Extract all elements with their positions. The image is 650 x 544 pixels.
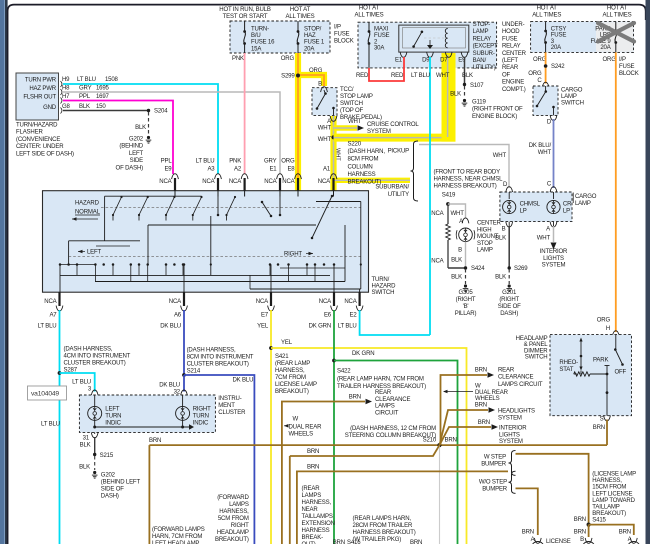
svg-text:BLK: BLK <box>79 104 90 110</box>
svg-text:WHEELS: WHEELS <box>289 431 314 437</box>
svg-text:FUSE: FUSE <box>334 32 350 38</box>
svg-text:STOP/: STOP/ <box>304 27 322 33</box>
svg-text:RIGHT: RIGHT <box>231 523 249 529</box>
svg-text:HEADLAMP: HEADLAMP <box>217 530 249 536</box>
svg-text:SYSTEM: SYSTEM <box>499 439 523 445</box>
svg-text:CLUSTER BREAKOUT): CLUSTER BREAKOUT) <box>187 362 249 368</box>
svg-text:LT BLU: LT BLU <box>411 73 430 79</box>
svg-text:SWITCH: SWITCH <box>561 101 584 107</box>
svg-text:W: W <box>293 417 299 423</box>
svg-text:5CM FROM: 5CM FROM <box>218 516 249 522</box>
svg-text:RELAY: RELAY <box>502 44 521 50</box>
svg-text:CHMSL: CHMSL <box>520 202 541 208</box>
svg-text:E6: E6 <box>324 313 332 319</box>
svg-text:PARK: PARK <box>593 358 608 364</box>
svg-text:S: S <box>600 417 604 423</box>
svg-text:(LICENSE LAMP: (LICENSE LAMP <box>592 472 636 478</box>
svg-text:BRN: BRN <box>445 438 457 444</box>
svg-text:(CONVENIENCE: (CONVENIENCE <box>16 137 60 143</box>
svg-text:DIMMER: DIMMER <box>524 348 548 354</box>
svg-text:NCA: NCA <box>202 179 215 185</box>
svg-text:8CM INTO INSTRUMENT: 8CM INTO INSTRUMENT <box>187 355 254 361</box>
svg-text:FUSE 1: FUSE 1 <box>304 40 325 46</box>
svg-text:DK BLU/: DK BLU/ <box>529 143 552 149</box>
svg-text:TURN: TURN <box>105 414 121 420</box>
svg-text:STAT: STAT <box>559 367 573 373</box>
svg-text:(REAR LAMP: (REAR LAMP <box>275 361 310 367</box>
svg-text:OF DASH): OF DASH) <box>116 165 144 171</box>
svg-text:CENTER: CENTER <box>502 51 527 57</box>
svg-text:PICKUP: PICKUP <box>388 149 410 155</box>
svg-text:S204: S204 <box>154 109 168 115</box>
svg-text:W STEP: W STEP <box>484 455 506 461</box>
svg-text:HARNESS BREAKOUT): HARNESS BREAKOUT) <box>353 530 416 536</box>
svg-text:WHT: WHT <box>318 126 332 132</box>
svg-text:HOT AT: HOT AT <box>359 6 380 12</box>
svg-text:TAILLAMP: TAILLAMP <box>592 505 619 511</box>
svg-text:(RIGHT: (RIGHT <box>456 297 476 303</box>
svg-text:E9: E9 <box>164 167 172 173</box>
svg-text:ORG: ORG <box>281 159 295 165</box>
svg-text:MENT: MENT <box>218 403 235 409</box>
svg-text:SIDE OF: SIDE OF <box>101 487 124 493</box>
svg-text:LT BLU: LT BLU <box>72 380 91 386</box>
svg-text:HARNESS: HARNESS <box>302 528 330 534</box>
svg-text:ENGINE: ENGINE <box>502 80 524 86</box>
svg-text:I/P: I/P <box>334 25 341 31</box>
svg-text:ORG: ORG <box>597 318 611 324</box>
svg-text:WHT: WHT <box>538 150 552 156</box>
svg-text:DASH): DASH) <box>101 494 119 500</box>
svg-text:20A: 20A <box>551 45 562 51</box>
svg-text:31: 31 <box>83 436 90 442</box>
svg-text:BRN: BRN <box>333 540 345 544</box>
svg-text:30A: 30A <box>374 46 385 52</box>
svg-text:CLEARANCE: CLEARANCE <box>498 375 533 381</box>
svg-text:DK GRN: DK GRN <box>309 324 331 330</box>
svg-text:(REAR: (REAR <box>302 486 321 492</box>
svg-text:1695: 1695 <box>96 86 110 92</box>
svg-text:BRN: BRN <box>410 540 422 544</box>
svg-text:15A: 15A <box>251 46 262 52</box>
svg-text:(FORWARD LAMPS: (FORWARD LAMPS <box>152 527 205 533</box>
svg-text:S107: S107 <box>470 83 484 89</box>
svg-text:ALL TIMES: ALL TIMES <box>355 13 384 19</box>
svg-text:LT BLU: LT BLU <box>338 324 357 330</box>
svg-text:DUAL REAR: DUAL REAR <box>289 424 323 430</box>
svg-text:B: B <box>580 537 584 543</box>
svg-text:MOUNT: MOUNT <box>477 234 499 240</box>
svg-text:ALL TIMES: ALL TIMES <box>532 13 561 19</box>
svg-text:LEFT SIDE OF DASH): LEFT SIDE OF DASH) <box>16 151 74 157</box>
svg-text:I/P: I/P <box>619 57 626 63</box>
svg-text:NCA: NCA <box>282 179 295 185</box>
svg-text:BLOCK: BLOCK <box>619 71 639 77</box>
svg-text:FUSE: FUSE <box>374 33 390 39</box>
svg-text:CARGO: CARGO <box>561 88 583 94</box>
svg-text:GRY: GRY <box>264 159 277 165</box>
svg-text:STEERING COLUMN BREAKOUT): STEERING COLUMN BREAKOUT) <box>345 433 436 439</box>
svg-text:HAZ: HAZ <box>304 33 316 39</box>
svg-text:COMPT.): COMPT.) <box>502 87 526 93</box>
svg-text:S215: S215 <box>100 453 114 459</box>
svg-text:H8: H8 <box>62 86 70 92</box>
svg-text:(RIGHT FRONT OF: (RIGHT FRONT OF <box>472 107 523 113</box>
svg-text:CRUISE CONTROL: CRUISE CONTROL <box>367 122 419 128</box>
svg-text:NCA: NCA <box>318 179 331 185</box>
svg-text:LIGHTS: LIGHTS <box>499 432 520 438</box>
svg-text:CENTER: UNDER: CENTER: UNDER <box>16 144 64 150</box>
svg-text:LAMP: LAMP <box>561 94 577 100</box>
svg-text:WHT: WHT <box>436 73 450 79</box>
svg-text:va104049: va104049 <box>31 391 59 398</box>
svg-text:(DASH HARNESS,: (DASH HARNESS, <box>187 348 236 354</box>
svg-text:E8: E8 <box>287 167 295 173</box>
svg-text:BREAKOUT): BREAKOUT) <box>215 537 249 543</box>
svg-text:HARN, 7CM FROM: HARN, 7CM FROM <box>152 534 202 540</box>
svg-text:G201: G201 <box>502 290 517 296</box>
svg-text:ORG: ORG <box>603 57 617 63</box>
svg-text:BAN/: BAN/ <box>473 58 487 64</box>
svg-text:BRN: BRN <box>475 403 487 409</box>
svg-text:CR: CR <box>563 202 572 208</box>
svg-text:B: B <box>458 248 462 254</box>
svg-text:E2: E2 <box>350 313 358 319</box>
svg-text:& PANEL: & PANEL <box>524 342 549 348</box>
svg-text:CTSY: CTSY <box>551 27 567 33</box>
svg-text:(REAR LAMPS HARN,: (REAR LAMPS HARN, <box>353 516 412 522</box>
svg-text:LICENSE: LICENSE <box>546 539 571 544</box>
svg-text:RELAY: RELAY <box>473 36 492 42</box>
svg-text:BLK: BLK <box>80 443 91 449</box>
svg-text:LT BLU: LT BLU <box>77 77 96 83</box>
svg-text:PPL: PPL <box>79 94 91 100</box>
svg-text:NCA: NCA <box>431 259 444 265</box>
svg-text:FUSE 16: FUSE 16 <box>251 40 275 46</box>
svg-text:S242: S242 <box>551 64 565 70</box>
svg-text:LAMP TOWARD: LAMP TOWARD <box>592 498 635 504</box>
svg-text:LT BLU: LT BLU <box>38 324 57 330</box>
svg-text:BRN: BRN <box>522 530 534 536</box>
svg-text:S299: S299 <box>281 74 295 80</box>
svg-text:1697: 1697 <box>96 94 110 100</box>
svg-text:(RIGHT: (RIGHT <box>499 297 519 303</box>
svg-text:NCA: NCA <box>431 211 444 217</box>
svg-text:G8: G8 <box>62 104 71 110</box>
svg-text:(FORWARD: (FORWARD <box>217 495 249 501</box>
svg-text:ENGINE BLOCK): ENGINE BLOCK) <box>472 114 517 120</box>
svg-text:LEFT: LEFT <box>129 151 144 157</box>
svg-text:(BEHIND LEFT: (BEHIND LEFT <box>101 480 141 486</box>
svg-text:D9: D9 <box>422 58 430 64</box>
svg-text:PNK: PNK <box>232 56 244 62</box>
svg-text:CLUSTER BREAKOUT): CLUSTER BREAKOUT) <box>64 361 126 367</box>
svg-text:H: H <box>606 326 610 332</box>
svg-text:S419: S419 <box>442 193 456 199</box>
svg-text:HARNESS,: HARNESS, <box>275 368 305 374</box>
svg-text:HAZ PWR: HAZ PWR <box>29 86 56 92</box>
svg-text:HOT AT: HOT AT <box>607 6 628 12</box>
svg-text:S287: S287 <box>64 368 78 374</box>
svg-text:(DASH HARNESS,: (DASH HARNESS, <box>64 347 113 353</box>
svg-text:CLUSTER: CLUSTER <box>218 410 246 416</box>
svg-text:INTERIOR: INTERIOR <box>499 426 527 432</box>
svg-text:D7: D7 <box>440 58 448 64</box>
svg-text:DK BLU: DK BLU <box>159 383 180 389</box>
svg-text:STOP: STOP <box>477 241 493 247</box>
svg-text:STOP LAMP: STOP LAMP <box>340 94 373 100</box>
svg-text:BLK: BLK <box>495 275 506 281</box>
svg-text:WHT: WHT <box>348 119 362 125</box>
svg-text:S416: S416 <box>347 540 361 544</box>
svg-text:LP: LP <box>520 208 527 214</box>
svg-text:LAMP: LAMP <box>473 29 489 35</box>
svg-text:HOOD: HOOD <box>502 29 520 35</box>
svg-text:NEAR: NEAR <box>302 507 319 513</box>
svg-text:BREAKOUT): BREAKOUT) <box>275 389 309 395</box>
svg-text:SWITCH: SWITCH <box>372 290 395 296</box>
svg-text:A6: A6 <box>174 313 182 319</box>
svg-text:NCA: NCA <box>229 179 242 185</box>
svg-text:28CM FROM TRAILER: 28CM FROM TRAILER <box>353 523 413 529</box>
svg-text:20A: 20A <box>304 46 315 52</box>
svg-text:A7: A7 <box>49 313 57 319</box>
svg-text:SIDE OF: SIDE OF <box>498 304 521 310</box>
svg-text:BRN: BRN <box>593 425 605 431</box>
svg-text:UTILITY: UTILITY <box>388 192 409 198</box>
svg-text:BRN: BRN <box>574 530 586 536</box>
svg-text:REAR: REAR <box>502 65 519 71</box>
svg-text:HEADLIGHTS: HEADLIGHTS <box>498 409 535 415</box>
svg-text:YEL: YEL <box>281 340 293 346</box>
svg-text:BUMPER: BUMPER <box>481 462 507 468</box>
svg-text:A3: A3 <box>207 167 215 173</box>
svg-text:UNDER-: UNDER- <box>502 22 525 28</box>
svg-text:RED: RED <box>391 73 404 79</box>
svg-text:150: 150 <box>96 104 106 110</box>
svg-text:ORG: ORG <box>528 71 542 77</box>
svg-text:BRN: BRN <box>307 465 319 471</box>
svg-text:B/U: B/U <box>251 33 261 39</box>
svg-text:BRN: BRN <box>349 395 361 401</box>
svg-text:BUMPER: BUMPER <box>482 487 508 493</box>
svg-text:E1: E1 <box>395 58 403 64</box>
svg-text:HARNESS,: HARNESS, <box>219 509 249 515</box>
svg-text:INDIC: INDIC <box>105 421 121 427</box>
svg-text:FLSHR OUT: FLSHR OUT <box>23 95 56 101</box>
svg-text:HARNESS BREAKOUT): HARNESS BREAKOUT) <box>434 184 497 190</box>
svg-text:REAR: REAR <box>375 390 392 396</box>
svg-text:H9: H9 <box>62 77 70 83</box>
svg-text:G202: G202 <box>129 137 144 143</box>
svg-text:ORG: ORG <box>281 56 295 62</box>
svg-text:REAR: REAR <box>498 368 515 374</box>
svg-text:NORMAL: NORMAL <box>75 210 101 216</box>
svg-text:RIGHT: RIGHT <box>284 252 302 258</box>
svg-text:PPL: PPL <box>161 159 173 165</box>
svg-text:B: B <box>502 227 506 233</box>
svg-text:LAMPS: LAMPS <box>302 493 322 499</box>
svg-text:DK BLU: DK BLU <box>160 324 181 330</box>
svg-text:INSTRU-: INSTRU- <box>218 396 241 402</box>
svg-text:LEFT: LEFT <box>87 250 102 256</box>
svg-text:RHEO-: RHEO- <box>559 360 578 366</box>
svg-text:UTILITY): UTILITY) <box>473 65 496 71</box>
svg-text:BLK: BLK <box>135 125 146 131</box>
svg-text:S424: S424 <box>471 266 485 272</box>
svg-text:DK BLU: DK BLU <box>233 378 254 384</box>
svg-text:LAMPS: LAMPS <box>229 502 249 508</box>
svg-text:G119: G119 <box>472 100 486 106</box>
svg-text:W/O STEP: W/O STEP <box>479 480 507 486</box>
svg-text:SYSTEM: SYSTEM <box>498 416 522 422</box>
svg-text:ALL TIMES: ALL TIMES <box>603 13 632 19</box>
svg-text:BLK: BLK <box>451 258 462 264</box>
svg-text:HARNESS, NEAR CHMSL: HARNESS, NEAR CHMSL <box>434 177 504 183</box>
svg-text:GND: GND <box>43 105 57 111</box>
svg-text:BREAK-: BREAK- <box>302 535 324 541</box>
svg-text:NCA: NCA <box>264 179 277 185</box>
svg-text:S269: S269 <box>514 266 528 272</box>
svg-text:7CM FROM: 7CM FROM <box>275 375 306 381</box>
svg-text:LT BLU: LT BLU <box>41 422 60 428</box>
svg-text:S220: S220 <box>348 142 362 148</box>
svg-text:WHT: WHT <box>451 211 465 217</box>
svg-text:RED: RED <box>356 73 369 79</box>
svg-text:H7: H7 <box>62 94 70 100</box>
svg-text:BLK: BLK <box>79 465 90 471</box>
svg-text:HOT AT: HOT AT <box>537 6 558 12</box>
svg-text:PILLAR): PILLAR) <box>455 311 477 317</box>
svg-text:SUBURBAN/: SUBURBAN/ <box>375 185 409 191</box>
svg-text:NCA: NCA <box>256 299 269 305</box>
svg-text:BREAKOUT): BREAKOUT) <box>592 511 626 517</box>
svg-text:S422: S422 <box>337 369 351 375</box>
svg-text:FUSE: FUSE <box>502 36 518 42</box>
svg-text:TCC/: TCC/ <box>340 87 354 93</box>
svg-text:WHT: WHT <box>537 236 551 242</box>
svg-text:8CM FROM: 8CM FROM <box>348 157 379 163</box>
svg-text:B: B <box>318 82 322 88</box>
svg-text:SWITCH: SWITCH <box>340 101 363 107</box>
svg-text:LP: LP <box>563 208 570 214</box>
svg-text:BRN: BRN <box>307 449 319 455</box>
svg-text:DUAL REAR: DUAL REAR <box>475 390 509 396</box>
svg-text:'B': 'B' <box>463 304 469 310</box>
svg-text:S415: S415 <box>592 518 606 524</box>
svg-text:NCA: NCA <box>159 179 172 185</box>
svg-text:LT BLU: LT BLU <box>196 159 215 165</box>
svg-text:G202: G202 <box>101 473 116 479</box>
svg-text:HARNESS: HARNESS <box>348 172 376 178</box>
svg-text:S421: S421 <box>275 354 289 360</box>
svg-text:TURN-: TURN- <box>251 27 269 33</box>
svg-text:BRN: BRN <box>574 517 586 523</box>
svg-text:YEL: YEL <box>257 324 269 330</box>
svg-text:LEFT: LEFT <box>105 407 120 413</box>
svg-text:(TOP OF: (TOP OF <box>340 108 364 114</box>
svg-text:A2: A2 <box>234 167 242 173</box>
svg-text:GRY: GRY <box>79 86 92 92</box>
svg-text:LAMP: LAMP <box>477 248 493 254</box>
svg-text:HOT AT: HOT AT <box>290 7 311 13</box>
svg-text:CARGO: CARGO <box>575 194 597 200</box>
svg-text:15CM FROM: 15CM FROM <box>592 485 626 491</box>
svg-text:HEADLAMP: HEADLAMP <box>516 336 548 342</box>
svg-text:TURN PWR: TURN PWR <box>25 78 57 84</box>
svg-text:BRN: BRN <box>478 420 490 426</box>
svg-text:TURN: TURN <box>193 414 209 420</box>
svg-text:WHEELS: WHEELS <box>475 396 500 402</box>
svg-text:INDIC: INDIC <box>193 421 209 427</box>
svg-text:1508: 1508 <box>105 77 119 83</box>
svg-text:BLK: BLK <box>451 275 462 281</box>
svg-text:BRN: BRN <box>475 368 487 374</box>
svg-text:FUSE: FUSE <box>551 33 567 39</box>
svg-text:RIGHT: RIGHT <box>193 407 211 413</box>
svg-text:WHT: WHT <box>493 153 507 159</box>
svg-text:INTERIOR: INTERIOR <box>540 249 568 255</box>
svg-text:TAILLAMPS: TAILLAMPS <box>302 514 333 520</box>
svg-text:FUSE: FUSE <box>619 64 635 70</box>
svg-text:4CM INTO INSTRUMENT: 4CM INTO INSTRUMENT <box>64 354 131 360</box>
svg-text:ORG: ORG <box>533 57 547 63</box>
svg-text:S214: S214 <box>187 369 201 375</box>
svg-text:(FRONT TO REAR BODY: (FRONT TO REAR BODY <box>434 170 501 176</box>
svg-text:G305: G305 <box>458 290 473 296</box>
svg-text:LIGHTS: LIGHTS <box>543 256 564 262</box>
svg-text:(LEFT: (LEFT <box>502 58 518 64</box>
svg-text:OFF: OFF <box>615 370 627 376</box>
svg-text:HOT IN RUN, BULB: HOT IN RUN, BULB <box>219 7 271 13</box>
svg-text:(DASH HARN,: (DASH HARN, <box>348 149 386 155</box>
svg-text:WHT: WHT <box>335 148 341 161</box>
svg-text:TURN/HAZARD: TURN/HAZARD <box>16 123 58 129</box>
svg-text:NCA: NCA <box>44 299 57 305</box>
svg-text:LEFT LICENSE: LEFT LICENSE <box>592 491 632 497</box>
svg-text:EXTENSION: EXTENSION <box>302 521 335 527</box>
svg-text:A1: A1 <box>323 167 331 173</box>
svg-text:OF: OF <box>502 72 511 78</box>
svg-text:DK GRN: DK GRN <box>352 351 374 357</box>
svg-text:CIRCUIT: CIRCUIT <box>375 410 399 416</box>
svg-text:STOP-: STOP- <box>473 22 491 28</box>
svg-text:NCA: NCA <box>344 299 357 305</box>
svg-text:BLK: BLK <box>450 92 461 98</box>
svg-text:ORG: ORG <box>309 68 323 74</box>
svg-text:ALL TIMES: ALL TIMES <box>286 14 315 20</box>
svg-text:LAMPS: LAMPS <box>375 404 395 410</box>
svg-text:BLK: BLK <box>462 73 473 79</box>
svg-text:HARNESS,: HARNESS, <box>592 478 622 484</box>
svg-text:SWITCH: SWITCH <box>525 355 548 361</box>
svg-text:PNK: PNK <box>229 159 241 165</box>
svg-text:MAXI: MAXI <box>374 27 389 33</box>
svg-text:BRN: BRN <box>149 438 161 444</box>
svg-text:(DASH HARNESS, 12 CM FROM: (DASH HARNESS, 12 CM FROM <box>350 426 436 432</box>
svg-text:BRN: BRN <box>619 530 631 536</box>
svg-text:DASH): DASH) <box>500 311 518 317</box>
svg-text:COLUMN: COLUMN <box>348 164 373 170</box>
svg-text:TURN/: TURN/ <box>372 277 390 283</box>
svg-text:SUBUR-: SUBUR- <box>473 51 495 57</box>
svg-text:HAZARD: HAZARD <box>372 284 397 290</box>
svg-text:HARNESS,: HARNESS, <box>302 500 332 506</box>
svg-text:(BEHIND: (BEHIND <box>119 144 143 150</box>
svg-text:SYSTEM: SYSTEM <box>542 263 566 269</box>
svg-text:BLOCK: BLOCK <box>334 39 354 45</box>
svg-text:HAZARD: HAZARD <box>75 201 100 207</box>
